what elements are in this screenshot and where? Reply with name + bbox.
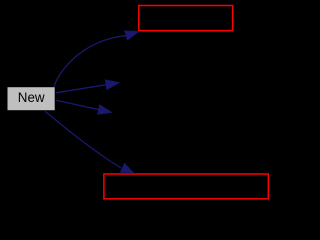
node New (current node, grey fill) bbox=[7, 87, 55, 111]
svg-text:New: New bbox=[18, 90, 45, 105]
edge New -> mid upper (hidden node) bbox=[56, 80, 119, 93]
edge New -> bottom-right box bbox=[45, 111, 133, 172]
node bottom-right (red box) bbox=[104, 174, 268, 199]
edge New -> top-right box bbox=[54, 31, 139, 87]
edge New -> mid lower (hidden node) bbox=[56, 100, 112, 114]
node top-right (red box) bbox=[139, 6, 233, 31]
